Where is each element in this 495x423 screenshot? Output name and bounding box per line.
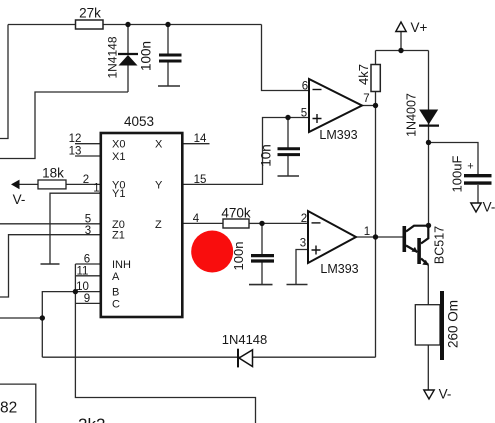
wire pin4 Z to 470k: [183, 222, 224, 224]
wire pin9 stub: [75, 302, 101, 304]
svg-text:470k: 470k: [221, 206, 251, 221]
minus mark U3: [312, 222, 321, 224]
partial IC box bottom-left corner: [0, 384, 36, 423]
wire comparator output bus vertical: [375, 51, 377, 358]
svg-text:5: 5: [85, 213, 91, 225]
svg-text:3: 3: [85, 225, 91, 237]
junction top rail / D1: [125, 22, 130, 27]
svg-text:15: 15: [194, 174, 207, 186]
resistor R2 18k: [38, 180, 66, 189]
diode D3 1N4007: [419, 110, 439, 126]
svg-text:X1: X1: [112, 151, 125, 163]
svg-text:260 Om: 260 Om: [446, 300, 461, 348]
wire pin14 stub: [183, 143, 210, 145]
svg-text:V-: V-: [439, 387, 452, 402]
svg-text:1: 1: [93, 183, 99, 195]
svg-text:X0: X0: [112, 139, 125, 151]
plus mark U3: [312, 246, 321, 255]
junction top rail / C1: [165, 22, 170, 27]
earpiece BF1 260 Om coil box: [415, 305, 440, 345]
diode D2 1N4148: [238, 349, 253, 368]
wire pin13 stub: [75, 155, 101, 157]
svg-text:Z1: Z1: [112, 230, 125, 242]
svg-text:Y: Y: [155, 179, 163, 191]
wire pin1 to ground: [50, 193, 101, 264]
wire C2 10n leads: [287, 118, 289, 177]
wire pin10 node left branch down to D2 rail: [42, 292, 75, 358]
plus mark U2: [313, 114, 322, 123]
svg-text:13: 13: [69, 146, 82, 158]
transistor Q1 BC517 darlington: [403, 226, 429, 266]
junction D3 cathode / C4 branch: [426, 140, 431, 145]
svg-text:A: A: [112, 271, 120, 283]
svg-text:LM393: LM393: [320, 262, 358, 276]
wire C4 bottom to V-: [477, 185, 479, 203]
svg-text:6: 6: [302, 81, 308, 93]
wire D2 rail horizontal: [42, 356, 375, 358]
svg-text:100uF: 100uF: [450, 156, 465, 193]
svg-text:V-: V-: [483, 200, 495, 215]
earpiece BF1 core bar: [440, 291, 444, 360]
wire D1 anode lead: [127, 25, 129, 54]
svg-text:BC517: BC517: [433, 226, 447, 264]
wire op2 non-inverting input to ground: [296, 250, 308, 285]
svg-text:7: 7: [363, 93, 369, 105]
svg-text:10n: 10n: [259, 144, 274, 167]
wire from D1 to left edge: [0, 92, 128, 159]
wire V+ arrow stem: [400, 31, 402, 51]
svg-text:2: 2: [83, 174, 89, 186]
svg-text:82: 82: [0, 400, 17, 417]
svg-text:2k2: 2k2: [78, 415, 105, 423]
wire op2 output to Q1 base: [356, 236, 403, 238]
svg-text:11: 11: [77, 265, 89, 277]
ground C3: [249, 284, 273, 286]
capacitor C3 100n: [251, 256, 274, 261]
svg-text:3: 3: [300, 238, 306, 250]
wire pin12 stub: [75, 143, 101, 145]
junction 470k / C3: [259, 221, 264, 226]
power V- arrow bottom: [424, 390, 434, 399]
svg-text:4: 4: [193, 213, 200, 225]
svg-text:100n: 100n: [231, 242, 246, 271]
wire INH-A-B-C bus down then right, exits bottom edge: [75, 264, 255, 423]
red marker dot annotation: [191, 231, 233, 273]
svg-text:V+: V+: [411, 20, 428, 35]
svg-text:18k: 18k: [42, 166, 64, 181]
svg-text:C: C: [112, 298, 120, 310]
svg-text:5: 5: [301, 108, 307, 120]
wire top rail from x8 to op1 corner: [8, 24, 262, 26]
svg-text:INH: INH: [112, 259, 131, 271]
op-amp U2 LM393 triangle: [309, 79, 362, 132]
minus mark U2: [313, 89, 322, 91]
svg-text:Y1: Y1: [112, 188, 125, 200]
svg-text:Z: Z: [155, 219, 162, 231]
ground pin1: [41, 263, 60, 265]
power V- arrow left: [11, 180, 20, 190]
wire V- arrow to 18k to pin2: [19, 183, 101, 185]
svg-text:27k: 27k: [79, 6, 101, 21]
svg-text:12: 12: [69, 133, 82, 145]
svg-text:100n: 100n: [139, 41, 154, 71]
wire 470k to node: [249, 222, 262, 224]
svg-text:1: 1: [364, 226, 370, 238]
svg-text:LM393: LM393: [319, 128, 357, 142]
capacitor C4 100uF electrolytic: [464, 176, 492, 183]
resistor R3 470k: [223, 219, 249, 228]
wire pin10 stub: [75, 291, 101, 293]
wire C3 100n leads: [261, 223, 263, 284]
svg-text:1N4148: 1N4148: [106, 36, 120, 78]
svg-text:+: +: [467, 161, 473, 173]
wire pin11 stub: [75, 275, 101, 277]
wire left elbow down to left edge: [0, 25, 8, 139]
IC U1 4053 body: [101, 133, 183, 317]
svg-text:1N4148: 1N4148: [222, 332, 268, 347]
svg-text:X: X: [155, 139, 163, 151]
wire op1 inverting input feed: [262, 25, 310, 91]
op-amp U3 LM393 triangle: [308, 211, 356, 263]
svg-text:2: 2: [301, 213, 307, 225]
power V+ arrow: [396, 22, 406, 32]
resistor R1 27k: [76, 20, 104, 29]
junction op1 input / C2: [285, 115, 290, 120]
svg-text:1N4007: 1N4007: [405, 93, 419, 137]
svg-text:4k7: 4k7: [356, 64, 371, 85]
ground C1: [158, 85, 180, 87]
wire D3 branch vertical: [428, 51, 430, 226]
wire pin6 stub: [75, 263, 101, 265]
svg-text:14: 14: [194, 133, 207, 145]
power V- arrow under C4: [471, 203, 481, 212]
svg-text:4053: 4053: [124, 114, 154, 129]
junction Q1 collector rail: [426, 223, 431, 228]
wire V+ rail: [376, 50, 429, 52]
wire Q1 emitter down through BF1 to V-: [427, 265, 429, 390]
wire pin3 elbow to left edge: [0, 235, 101, 297]
node 7 junction: [373, 103, 378, 108]
wire from left edge to node A: [0, 317, 42, 319]
capacitor C1 100n: [159, 55, 182, 61]
node A junction left branch: [40, 315, 45, 320]
diode D1 1N4148: [118, 54, 138, 66]
svg-text:B: B: [112, 287, 119, 299]
svg-text:6: 6: [84, 254, 90, 266]
ground op2 non-inverting input: [287, 284, 308, 286]
capacitor C2 10n: [278, 149, 301, 155]
junction pin10 bus: [73, 289, 78, 294]
ground C2: [278, 175, 300, 177]
junction V+ rail: [398, 48, 403, 53]
wire D1 cathode lead: [127, 66, 129, 93]
resistor R4 4k7: [371, 65, 380, 92]
wire op1 output stub: [362, 105, 376, 107]
wire C1 leads: [167, 25, 169, 87]
wire pin5 from left edge: [0, 223, 101, 225]
node 1 junction: [373, 234, 378, 239]
wire to C4 100uF: [429, 143, 479, 175]
svg-text:9: 9: [84, 293, 90, 305]
wire pin15 Y to op1 non-inverting input: [183, 118, 310, 185]
svg-text:V-: V-: [13, 192, 26, 207]
wire op2 inverting input: [262, 222, 308, 224]
